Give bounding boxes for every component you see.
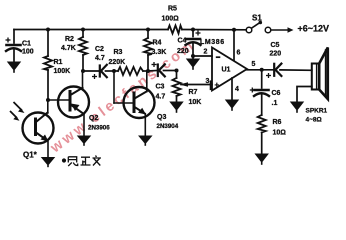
wire arrow to supply [271,29,289,31]
svg-text:2N3906: 2N3906 [88,125,110,132]
capacitor C3 [148,70,157,73]
junction node rail/C4 [191,28,195,32]
capacitor C4 [192,30,194,37]
svg-text:10Ω: 10Ω [273,130,287,137]
svg-text:Q3: Q3 [157,114,166,121]
junction node pin5/C5/C6 [260,68,264,72]
svg-text:100: 100 [22,49,34,56]
op-amp U1 LM386 [212,48,247,91]
svg-text:LM386: LM386 [200,39,225,46]
svg-text:+: + [215,81,220,90]
C3 polarity plus [152,62,157,67]
C5 polarity plus [266,73,271,78]
junction node rail/pin6 [232,28,236,32]
svg-text:S1: S1 [252,14,262,23]
svg-text:4.7K: 4.7K [61,45,76,52]
svg-text:3: 3 [206,78,210,85]
svg-text:C6: C6 [272,90,281,97]
svg-text:100Ω: 100Ω [162,16,180,23]
junction node rail/R2 [81,28,85,32]
op-amp minus sign [216,56,221,58]
svg-text:C1: C1 [22,41,31,48]
wire C4 node to op-amp pin 2 [193,55,212,57]
transistor Q3 internals [114,71,147,136]
glyph 文 [93,156,102,166]
wire node to C2 [83,70,99,72]
svg-text:U1: U1 [222,67,231,74]
svg-text:4: 4 [235,86,239,93]
svg-text:2: 2 [204,49,208,56]
svg-text:3.3K: 3.3K [152,49,167,56]
wire rail right of R5 to switch [182,29,246,31]
svg-text:SPKR1: SPKR1 [306,108,328,115]
C1 polarity plus [6,38,11,43]
ground below Q1 [42,158,54,168]
svg-text:R6: R6 [273,119,282,126]
resistor R6 [258,115,266,133]
Q2 emitter arrowhead (PNP, points to base) [71,104,80,112]
svg-text:220: 220 [270,51,282,58]
resistor R3 [114,70,118,72]
glyph 见 [68,157,78,166]
junction node C3/R7 [175,69,179,73]
junction node rail/R4 [146,28,150,32]
transistor Q2 internals [48,71,84,136]
resistor R7 [176,71,178,79]
resistor R2 [82,30,84,38]
svg-text:.1: .1 [272,100,278,107]
wire pin 6 [233,30,235,61]
footnote bullet and 见正文 glyphs [62,158,66,162]
svg-text:R4: R4 [153,40,162,47]
junction node R1/Q2 base/Q1 collector [46,98,50,102]
svg-text:220: 220 [177,48,189,55]
wire pin 5 output [247,69,273,71]
svg-text:R3: R3 [114,49,123,56]
svg-text:100K: 100K [54,68,71,75]
speaker SPKR1 body [312,64,319,90]
resistor R5 [168,26,182,34]
C2 polarity plus [92,74,97,79]
wire pin 4 [231,78,233,100]
ground below R7 [170,102,182,113]
light arrow 2 [10,111,17,118]
ground below speaker [291,102,303,113]
speaker SPKR1 wiring [297,87,312,103]
svg-text:5: 5 [252,61,256,68]
Q1 emitter arrowhead [41,135,49,142]
resistor R1 [47,30,49,57]
ground below R6 [256,154,268,165]
svg-text:Q1*: Q1* [23,151,38,160]
svg-text:R5: R5 [168,6,177,13]
junction node R3/R4/C3/Q3 collector [146,69,150,73]
ground below Q2 [78,136,90,146]
junction node C2/R3/Q3 base [112,69,116,73]
svg-text:2N3904: 2N3904 [157,123,179,130]
junction node C4/pin2 [191,54,195,58]
svg-text:4.7: 4.7 [156,94,166,101]
wire node to op-amp pin 3 [181,84,212,86]
svg-text:R2: R2 [65,36,74,43]
resistor R4 [147,30,149,39]
transistor Q1 internals [36,100,49,158]
transistor Q3 circle [124,87,155,118]
ground below C1 [8,62,20,73]
Q3 emitter arrowhead [138,108,146,115]
svg-text:C4: C4 [178,38,187,45]
svg-text:220K: 220K [109,59,126,66]
ground below Q3 [139,136,151,146]
capacitor C6 [261,70,263,88]
svg-text:C3: C3 [156,84,165,91]
svg-text:R1: R1 [54,59,63,66]
svg-text:4.7: 4.7 [95,55,105,62]
junction node R2/C2/Q2 collector [81,69,85,73]
svg-text:Q2: Q2 [89,115,98,122]
svg-text:4~8Ω: 4~8Ω [306,117,322,124]
svg-text:+6~12V: +6~12V [298,24,330,34]
svg-text:10K: 10K [189,99,202,106]
light arrow 1 [14,102,23,111]
svg-text:C5: C5 [271,42,280,49]
arrowhead on pin3 wire [180,82,189,87]
C4 polarity plus [196,31,201,36]
capacitor C1 [13,30,15,44]
capacitor C2 [99,66,101,77]
svg-text:C2: C2 [95,46,104,53]
wire top supply rail left of R5 [14,29,168,31]
junction node rail/R1 [46,28,50,32]
transistor Q2 circle [58,87,89,118]
ground below C4 [187,59,199,70]
svg-text:6: 6 [237,50,241,57]
svg-text:R7: R7 [189,89,198,96]
ground below op-amp pin 4 [226,100,238,111]
glyph 正 [81,157,91,165]
C6 polarity plus [250,88,255,93]
capacitor C5 [273,64,275,76]
watermark www.elecfans.com [47,37,199,157]
transistor Q1 circle [23,113,54,144]
switch S1 [246,23,271,33]
